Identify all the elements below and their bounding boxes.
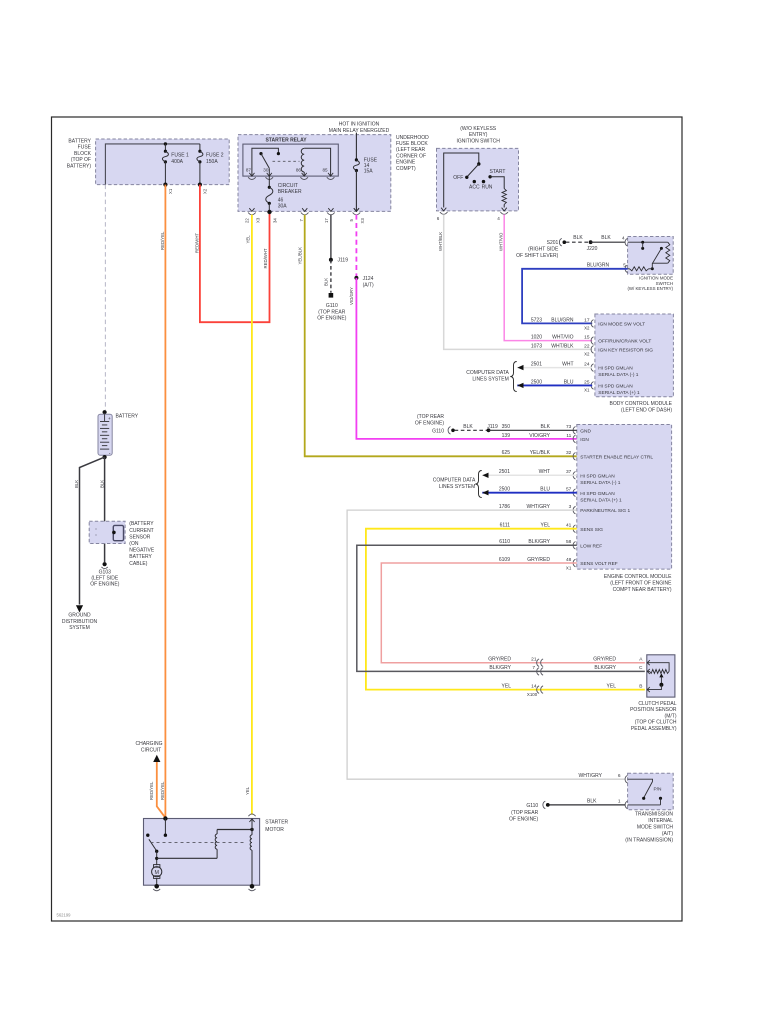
relay contact wiring [252,148,279,176]
wire RED/YEL from X1 to starter motor [164,185,166,819]
svg-text:M: M [154,870,159,876]
svg-text:(TOP OF: (TOP OF [71,157,91,163]
svg-text:MAIN RELAY ENERGIZED: MAIN RELAY ENERGIZED [329,128,390,134]
wire BLK dashed J119 to G110 [330,260,332,293]
svg-text:(LEFT FRONT OF ENGINE: (LEFT FRONT OF ENGINE [610,580,672,586]
svg-text:OF ENGINE): OF ENGINE) [415,420,445,426]
svg-text:1: 1 [618,799,621,805]
svg-text:BODY CONTROL MODULE: BODY CONTROL MODULE [609,401,672,407]
svg-text:J220: J220 [587,246,598,252]
svg-text:STARTER RELAY: STARTER RELAY [265,138,307,144]
svg-text:LINES SYSTEM: LINES SYSTEM [439,484,475,490]
svg-text:WHT/BLK: WHT/BLK [551,343,574,349]
svg-text:BLK: BLK [74,480,79,488]
svg-text:FUSE 1: FUSE 1 [171,153,189,159]
svg-text:P/N: P/N [654,787,663,793]
clutch sensor pin B entry [647,687,650,692]
svg-text:LINES SYSTEM: LINES SYSTEM [472,377,508,383]
svg-text:37: 37 [566,469,572,475]
clutch sensor track wiring [647,663,669,672]
svg-text:GRY/RED: GRY/RED [488,656,511,662]
svg-text:6: 6 [618,773,621,779]
svg-text:BLU/GRN: BLU/GRN [551,317,574,323]
wire VIO/GRY from J124 to ECM IGN [356,278,576,439]
svg-text:350: 350 [502,424,511,430]
svg-text:COMPUTER DATA: COMPUTER DATA [433,477,476,483]
starter switch contact [146,834,149,837]
svg-text:BLK: BLK [99,480,104,488]
starter ground terminals [154,884,159,889]
svg-text:YEL: YEL [245,235,250,244]
svg-text:7: 7 [299,219,304,222]
svg-text:RED/WHT: RED/WHT [263,248,268,268]
svg-text:11: 11 [566,433,571,439]
svg-text:625: 625 [502,450,511,456]
ignition key resistor [490,177,504,189]
svg-text:YEL: YEL [541,523,551,529]
svg-text:CABLE): CABLE) [129,561,147,567]
svg-text:G110: G110 [526,803,538,809]
svg-text:ACC: ACC [469,185,480,191]
svg-text:OF SHIFT LEVER): OF SHIFT LEVER) [516,253,558,259]
svg-text:(M/T): (M/T) [665,713,677,719]
starter relay [243,144,338,176]
svg-text:1786: 1786 [499,504,510,510]
svg-text:BLK: BLK [324,278,329,286]
svg-text:(TOP REAR: (TOP REAR [318,309,345,315]
wire BLK dashed S201 to J220 [566,241,591,243]
contact RUN [482,180,485,183]
svg-text:5: 5 [349,219,354,222]
contact ACC [473,180,476,183]
svg-text:4: 4 [622,236,625,241]
battery fuse block [96,139,230,185]
ground G110 square terminal [329,293,334,298]
svg-text:SERIAL DATA (-) 1: SERIAL DATA (-) 1 [580,480,620,486]
dashed battery positive wire [104,185,106,411]
svg-text:WHT/GRY: WHT/GRY [578,773,602,779]
svg-text:HI SPD GMLAN: HI SPD GMLAN [598,366,633,372]
ignition mode switch blade [660,247,663,250]
ignition switch common wiring [444,153,479,208]
svg-text:BATTERY: BATTERY [68,139,91,145]
connector pin 22 X3 YEL [249,208,254,211]
svg-text:SERIAL DATA (+) 1: SERIAL DATA (+) 1 [598,390,640,396]
svg-text:CURRENT: CURRENT [129,528,153,534]
fuse F1 400A [164,144,166,151]
svg-text:BLK: BLK [541,424,551,430]
svg-text:BLU: BLU [540,487,550,493]
computer data lines system label upper [510,362,516,392]
svg-text:21: 21 [531,656,537,662]
relay actuation dashed link [273,160,300,162]
svg-text:GND: GND [580,428,591,434]
svg-text:SERIAL DATA (+) 1: SERIAL DATA (+) 1 [580,497,622,503]
svg-text:RED/WHT: RED/WHT [194,233,199,253]
junction J119 [329,258,333,262]
wire feed to fuse 14 [355,133,357,160]
svg-text:RED/YEL: RED/YEL [160,781,165,800]
svg-text:J124: J124 [363,276,374,282]
ignition switch blade [467,164,479,177]
svg-text:BLK: BLK [463,424,473,430]
svg-text:YEL/BLK: YEL/BLK [298,247,303,265]
ignition mode switch resistor bottom [630,267,649,271]
clutch pedal position sensor [647,655,675,697]
svg-text:BATTERY: BATTERY [116,414,139,420]
svg-text:GROUND: GROUND [68,613,91,619]
svg-text:CLUTCH PEDAL: CLUTCH PEDAL [638,701,676,707]
svg-text:15: 15 [584,335,590,341]
svg-text:WHT: WHT [539,469,550,475]
battery [103,410,107,414]
wire BLU/GRN pin5 to BCM 17 [522,269,628,324]
svg-text:17: 17 [584,317,590,323]
svg-text:(TOP REAR: (TOP REAR [511,810,538,816]
starter solenoid actuation dashed [151,841,247,843]
svg-text:IGN: IGN [580,437,589,443]
wire GRY/RED 6109 ECM to clutch A [381,563,645,663]
wire YEL 6111 ECM to clutch B [366,529,645,690]
svg-text:RED/YEL: RED/YEL [160,231,165,250]
svg-text:4: 4 [497,216,500,221]
relay coil [301,148,304,172]
svg-text:C: C [639,665,643,671]
svg-text:SENSOR: SENSOR [129,534,151,540]
svg-text:BLOCK: BLOCK [74,151,92,157]
svg-text:WHT: WHT [562,362,573,368]
svg-text:BLK: BLK [587,799,597,805]
svg-text:30: 30 [263,167,269,172]
svg-text:COMPT NEAR BATTERY): COMPT NEAR BATTERY) [613,587,672,593]
svg-text:562199: 562199 [57,913,72,918]
svg-text:X2: X2 [584,352,590,357]
svg-text:FUSE BLOCK: FUSE BLOCK [396,141,428,147]
svg-text:6110: 6110 [499,539,510,545]
svg-text:CORNER OF: CORNER OF [396,153,426,159]
svg-text:(RIGHT SIDE: (RIGHT SIDE [528,247,559,253]
wire WHT/BLK pin6 to BCM 22 [444,214,593,349]
svg-text:6111: 6111 [500,523,511,529]
svg-text:INTERNAL: INTERNAL [648,818,673,824]
svg-text:HI SPD GMLAN: HI SPD GMLAN [598,384,633,390]
svg-text:CHARGING: CHARGING [136,741,163,747]
terminal X2 [198,183,202,187]
svg-text:HOT IN IGNITION: HOT IN IGNITION [339,122,380,128]
svg-text:CIRCUIT: CIRCUIT [278,183,298,189]
wire BLK 350 to ECM GND [489,429,577,431]
svg-text:OF ENGINE): OF ENGINE) [509,816,539,822]
svg-text:1020: 1020 [531,335,542,341]
svg-text:41: 41 [566,523,572,529]
wire BLK dashed G110 to J119 [455,429,489,431]
svg-text:BLU: BLU [564,379,574,385]
svg-text:TRANSMISSION: TRANSMISSION [635,812,673,818]
wire YEL circuit to starter motor [251,215,253,815]
wire BLK J220 to ignition mode switch pin 4 [591,241,626,243]
svg-text:J119: J119 [338,258,349,264]
wire BLU 2500 to BCM 25 [517,384,592,386]
svg-text:1073: 1073 [531,343,542,349]
svg-text:X1: X1 [584,388,590,393]
circuit breaker 46 30A [268,176,270,186]
svg-text:(A/T): (A/T) [662,831,673,837]
svg-text:BLK: BLK [573,235,583,241]
relay switch blade [261,154,269,169]
svg-text:(BATTERY: (BATTERY [129,521,154,527]
svg-text:YEL: YEL [607,683,617,689]
svg-text:BLK/GRY: BLK/GRY [594,665,616,671]
starter switch feed [164,819,166,835]
svg-text:22: 22 [584,343,590,349]
svg-text:X1: X1 [168,188,173,194]
svg-text:OF ENGINE): OF ENGINE) [317,316,347,322]
svg-text:X1: X1 [566,565,572,570]
ground G110 terminal at TIMS [543,801,545,809]
body control module [595,314,674,397]
svg-text:MOTOR: MOTOR [265,827,284,833]
svg-text:WHT/GRY: WHT/GRY [526,504,550,510]
svg-text:PEDAL ASSEMBLY): PEDAL ASSEMBLY) [631,726,677,732]
svg-text:ENGINE CONTROL MODULE: ENGINE CONTROL MODULE [604,574,672,580]
svg-text:G103: G103 [99,569,111,575]
svg-text:X2: X2 [584,326,590,331]
svg-text:14: 14 [531,683,537,689]
starter solenoid windings [217,829,252,831]
connector pin 5 X3 VIO/GRY [354,208,359,211]
svg-text:COMPUTER DATA: COMPUTER DATA [466,370,509,376]
wire BLK battery to ground distribution [80,457,105,604]
svg-text:150A: 150A [206,159,218,165]
contact OFF [465,176,468,179]
ignition switch pin 4 [500,212,508,214]
starter motor M [156,851,158,865]
svg-text:RED/YEL: RED/YEL [149,781,154,800]
svg-text:(A/T): (A/T) [363,283,374,289]
fuse 14 15A [355,158,358,161]
svg-text:SERIAL DATA (-) 1: SERIAL DATA (-) 1 [598,372,638,378]
engine control module [577,425,672,570]
splice S201 [559,238,561,246]
svg-text:2500: 2500 [531,379,542,385]
wire BLU 2500 to ECM 57 [482,492,577,494]
starter motor [144,819,260,886]
svg-text:5: 5 [623,263,626,268]
svg-text:73: 73 [566,424,572,430]
svg-text:YEL/BLK: YEL/BLK [530,450,551,456]
svg-text:G110: G110 [432,428,444,434]
wire WHT/GRY 1786 ECM to transmission switch [347,510,625,779]
svg-text:COMPT): COMPT) [396,166,416,172]
svg-text:G110: G110 [326,303,338,309]
svg-text:(IN TRANSMISSION): (IN TRANSMISSION) [625,838,673,844]
svg-text:S201: S201 [547,240,559,246]
svg-text:IGN MODE SW VOLT: IGN MODE SW VOLT [598,321,645,327]
battery current sensor [89,521,125,543]
svg-text:(ON: (ON [129,541,139,547]
svg-text:SENS VOLT REF: SENS VOLT REF [580,561,617,567]
svg-text:30A: 30A [278,204,288,210]
svg-text:48: 48 [566,557,572,563]
wire YEL/BLK from relay 86 to ECM [305,215,577,457]
svg-text:57: 57 [566,487,572,493]
svg-text:UNDERHOOD: UNDERHOOD [396,135,429,141]
svg-text:ENGINE: ENGINE [396,160,416,166]
svg-text:85: 85 [322,167,328,172]
svg-text:17: 17 [324,218,329,223]
svg-text:LOW REF: LOW REF [580,543,602,549]
svg-text:(TOP REAR: (TOP REAR [417,414,444,420]
connector pin 7 YEL/BLK [302,208,307,211]
svg-text:3: 3 [569,504,572,510]
svg-text:OFF: OFF [453,175,463,181]
clutch sensor pin C entry [647,669,650,674]
svg-text:MODE SWITCH: MODE SWITCH [637,825,673,831]
svg-text:(LEFT END OF DASH): (LEFT END OF DASH) [621,408,672,414]
svg-text:BREAKER: BREAKER [278,189,302,195]
svg-text:X100: X100 [527,692,538,697]
svg-text:YEL: YEL [502,683,512,689]
svg-text:22: 22 [244,218,249,223]
svg-text:86: 86 [296,167,302,172]
svg-text:STARTER ENABLE RELAY CTRL: STARTER ENABLE RELAY CTRL [580,454,653,460]
junction J220 [589,240,593,244]
svg-text:24: 24 [584,362,590,368]
svg-text:VIO/GRY: VIO/GRY [529,433,550,439]
svg-text:J119: J119 [487,424,498,430]
svg-text:GRY/RED: GRY/RED [593,656,616,662]
ground G103 [103,562,107,566]
underhood fuse block [238,135,391,212]
connector pin 17 BLK [328,208,333,211]
junction J119 at ECM GND row [487,428,491,432]
svg-text:400A: 400A [171,159,183,165]
svg-text:WHT/VIO: WHT/VIO [552,335,573,341]
terminal X1 [163,183,167,187]
svg-text:25: 25 [584,379,590,385]
ground G110 terminal at ECM [448,427,450,435]
svg-text:YEL: YEL [245,786,250,795]
svg-text:-: - [109,451,111,457]
svg-text:SENS SIG: SENS SIG [580,527,603,533]
svg-text:IGNITION SWITCH: IGNITION SWITCH [457,139,501,145]
junction orange feed on starter case [163,816,167,820]
wire VIO/GRY dashed from fuse 14 to J124 [355,215,357,278]
svg-text:BATTERY: BATTERY [129,554,152,560]
contact START [488,175,491,178]
svg-text:(W/ KEYLESS ENTRY): (W/ KEYLESS ENTRY) [627,286,673,291]
svg-text:VIO/GRY: VIO/GRY [349,287,354,305]
svg-text:RUN: RUN [482,185,493,191]
svg-text:GRY/RED: GRY/RED [527,557,550,563]
svg-text:BATTERY): BATTERY) [67,163,92,169]
svg-text:DISTRIBUTION: DISTRIBUTION [62,619,98,625]
svg-text:WHT/VIO: WHT/VIO [498,232,503,251]
svg-text:X3: X3 [255,217,260,223]
svg-text:IGN KEY RESISTOR SIG: IGN KEY RESISTOR SIG [598,348,653,354]
svg-text:A: A [639,656,643,662]
svg-text:FUSE: FUSE [78,145,92,151]
svg-text:BLU/GRN: BLU/GRN [587,262,610,268]
svg-text:WHT/BLK: WHT/BLK [438,232,443,251]
svg-text:B: B [639,683,642,689]
starter YEL input connector [248,814,255,816]
svg-text:46: 46 [278,197,284,203]
wire WHT/VIO pin4 to BCM 15 [504,214,592,340]
svg-text:2501: 2501 [499,469,510,475]
svg-text:STARTER: STARTER [265,819,288,825]
svg-text:BLK/GRY: BLK/GRY [489,665,511,671]
svg-text:X3: X3 [360,218,365,224]
wire RED/WHT from X2 to circuit breaker [200,185,270,323]
svg-text:87: 87 [246,167,252,172]
junction J124 [354,276,358,280]
svg-text:OF ENGINE): OF ENGINE) [90,582,120,588]
ignition mode switch resistor right [666,242,670,263]
svg-text:(W/O KEYLESS: (W/O KEYLESS [460,126,497,132]
svg-text:32: 32 [566,450,572,456]
svg-text:6109: 6109 [499,557,510,563]
svg-text:ENTRY): ENTRY) [469,132,488,138]
svg-text:58: 58 [566,539,572,545]
svg-text:5723: 5723 [531,317,542,323]
svg-text:PARK/NEUTRAL SIG 1: PARK/NEUTRAL SIG 1 [580,508,630,514]
svg-text:6: 6 [437,216,440,221]
svg-text:(LEFT SIDE: (LEFT SIDE [91,576,119,582]
wire WHT 2501 to BCM 24 [517,367,592,369]
bus wire in battery fuse block [105,144,199,185]
svg-text:139: 139 [502,433,511,439]
clutch sensor pin A entry [647,660,650,665]
TIMS pin 1 [625,801,627,809]
ignition mode switch [628,237,674,275]
junction at breaker output [267,210,271,214]
svg-text:(LEFT REAR: (LEFT REAR [396,147,425,153]
fuse F2 150A [199,144,201,151]
svg-text:NEGATIVE: NEGATIVE [129,548,155,554]
TIMS switch wiring [628,779,653,781]
svg-text:SYSTEM: SYSTEM [69,625,90,631]
svg-text:34: 34 [272,218,277,223]
wire BLK battery to G103 [104,457,106,562]
svg-text:CIRCUIT: CIRCUIT [141,747,161,753]
svg-text:POSITION SENSOR: POSITION SENSOR [630,707,677,713]
svg-text:2500: 2500 [499,487,510,493]
svg-text:2501: 2501 [531,362,542,368]
svg-text:(TOP OF CLUTCH: (TOP OF CLUTCH [635,720,677,726]
wire BLK from relay 85 to J119 [330,215,332,260]
svg-text:HI SPD GMLAN: HI SPD GMLAN [580,473,615,479]
svg-text:7: 7 [532,665,535,671]
svg-text:BLK: BLK [601,235,611,241]
svg-text:X2: X2 [203,188,208,194]
svg-text:HI SPD GMLAN: HI SPD GMLAN [580,491,615,497]
svg-text:OFF/RUN/CRANK VOLT: OFF/RUN/CRANK VOLT [598,339,651,345]
wire WHT 2501 to ECM 37 [482,474,577,476]
svg-text:FUSE 2: FUSE 2 [206,153,224,159]
transmission internal mode switch [628,773,674,810]
ignition switch pin 6 [440,212,448,214]
wire BLK/GRY 6110 ECM to clutch C [357,545,645,671]
clutch sensor wiper [659,673,663,677]
svg-text:START: START [490,169,506,175]
starter switch blade [149,839,157,851]
svg-text:BLK/GRY: BLK/GRY [528,539,550,545]
computer data lines system label lower [475,471,481,498]
svg-text:15A: 15A [364,169,374,175]
